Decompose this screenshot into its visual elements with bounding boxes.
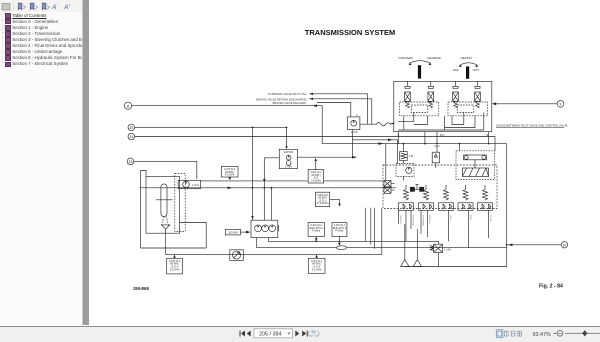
pilot spool unit 3	[453, 81, 459, 108]
svg-text:SM-865: SM-865	[133, 286, 150, 291]
wire pin to relief	[403, 144, 405, 152]
svg-text:10: 10	[563, 243, 567, 247]
pilot spool unit 2	[428, 81, 434, 108]
svg-text:SPEED P.: SPEED P.	[399, 215, 401, 225]
toolbar icons	[2, 3, 70, 12]
wire node 24 to control valve	[135, 137, 495, 151]
svg-text:9: 9	[560, 102, 562, 106]
svg-text:REVERSE: REVERSE	[411, 215, 413, 226]
zoom out control	[554, 332, 557, 334]
strainer funnel	[162, 217, 170, 255]
wire squiggle into pilot box	[390, 123, 394, 125]
spool spring 3	[439, 185, 454, 210]
svg-text:HIGH: HIGH	[449, 215, 451, 221]
spec box LB3	[315, 192, 340, 206]
converter outlet wire	[298, 156, 357, 159]
main delivery wire	[141, 187, 397, 189]
lube rail	[166, 254, 382, 256]
pump outlet rail 2	[257, 238, 507, 248]
wire to node 10	[507, 244, 562, 246]
lever FORWARD/REVERSE	[409, 61, 432, 79]
svg-text:VAPOR: VAPOR	[284, 150, 294, 154]
right rail vertical	[506, 144, 508, 267]
svg-text:B,D: B,D	[440, 133, 444, 137]
pilot pin wire A down	[397, 132, 399, 144]
left bookmarks sidebar	[0, 0, 82, 325]
return loop left vertical	[141, 171, 147, 249]
sidebar toolbar	[0, 0, 82, 12]
spool spring 1	[399, 185, 414, 210]
svg-text:REVERSE: REVERSE	[428, 56, 442, 60]
svg-text:Fig. 2 - 84: Fig. 2 - 84	[539, 284, 563, 290]
svg-text:FORWARD: FORWARD	[421, 215, 424, 227]
node 9 right	[557, 100, 564, 107]
pump feed vertical 2	[263, 158, 279, 220]
regulator hatched valve	[463, 168, 489, 177]
spec box LB2	[308, 158, 323, 183]
svg-text:TRANSMISSION SYSTEM: TRANSMISSION SYSTEM	[305, 28, 395, 37]
secondary delivery wire	[200, 180, 383, 182]
node 25	[128, 124, 135, 131]
drain stub wire 1	[364, 208, 366, 242]
lever speed MEDIUM	[459, 63, 478, 79]
drain stub wire 4	[381, 208, 383, 255]
pilot dashed chamber right	[448, 102, 488, 116]
port wire drops	[399, 210, 489, 247]
bookmark tree lines	[3, 14, 6, 63]
wire F valve outlet to gauge block	[353, 130, 398, 164]
filter level line	[156, 199, 173, 201]
lube triangle right	[413, 229, 421, 267]
svg-text:FORWARD: FORWARD	[398, 56, 412, 60]
svg-text:1-M: 1-M	[409, 154, 413, 158]
bottom collector line	[405, 266, 507, 268]
wire node 25 to converter	[135, 127, 287, 146]
spec box LB4	[308, 223, 324, 242]
wire from node 8 to lower bus	[132, 106, 507, 144]
svg-text:9-13 kPa: 9-13 kPa	[225, 174, 235, 177]
spec box LB7	[308, 255, 325, 274]
node 24	[128, 133, 135, 140]
wire bus to solenoid	[385, 144, 387, 181]
svg-text:FAST: FAST	[473, 68, 480, 72]
rate of rise cylinder	[464, 155, 487, 168]
restrictor oval	[337, 246, 347, 250]
pump feed vertical 3	[271, 188, 273, 220]
svg-text:MED: MED	[469, 215, 471, 220]
triple gear pump block	[251, 220, 279, 237]
wire node 9 to pilot box	[495, 103, 557, 105]
wire bus to subbox	[459, 144, 461, 151]
spool spring 4	[458, 185, 473, 210]
svg-text:23: 23	[129, 160, 133, 164]
pump outlet rail 1	[268, 238, 438, 242]
oil cooler	[230, 250, 244, 261]
svg-text:25: 25	[129, 126, 133, 130]
priority valve F	[348, 113, 360, 134]
annotation BRAKES VALVE RETURN	[256, 97, 372, 124]
wire node 23 to charge pump	[134, 162, 197, 179]
tank dashed chamber	[175, 174, 185, 232]
small pilot check valve	[432, 146, 439, 168]
node 23	[127, 158, 134, 165]
page number field	[254, 329, 293, 338]
page layout icons	[496, 330, 503, 338]
svg-text:1-094: 1-094	[285, 165, 292, 169]
pilot pin wire to bus	[424, 132, 426, 144]
svg-text:SPEED P.: SPEED P.	[428, 215, 430, 225]
svg-text:9-13 kPa: 9-13 kPa	[312, 268, 322, 271]
solenoid valve left pair	[384, 181, 395, 194]
bottom status bar	[0, 326, 600, 342]
pilot spool unit 1	[405, 81, 411, 108]
nav: first page	[240, 331, 251, 337]
svg-text:9-13 kPa: 9-13 kPa	[170, 268, 180, 271]
hose squiggle to pilot valve	[360, 122, 394, 126]
pump label 200 RW	[225, 229, 250, 235]
pilot pin wire B,D down	[436, 132, 438, 144]
spool spring 2	[419, 185, 434, 210]
solenoid coil pair	[410, 185, 424, 192]
svg-text:HIGH: HIGH	[453, 68, 460, 72]
annotation BRAKES VALVE DELIVERY	[273, 101, 351, 117]
arrow into converter	[285, 146, 288, 149]
svg-text:1-074: 1-074	[192, 183, 199, 187]
vertical scrollbar divider	[82, 0, 90, 325]
flow arrow on lower bus	[379, 142, 384, 145]
pump feed vertical 1	[251, 127, 254, 220]
history back/forward (pale)	[308, 330, 320, 337]
charge pump 1-074	[178, 180, 200, 188]
wire 24-line into subbox	[494, 150, 497, 152]
drain stub wire 2	[370, 208, 372, 245]
svg-text:P-Delta: P-Delta	[312, 230, 321, 233]
svg-text:200 RW: 200 RW	[228, 231, 238, 235]
svg-text:0-5.6kPa: 0-5.6kPa	[311, 179, 321, 182]
arrow into pilot box right	[492, 102, 496, 105]
control valve dashed enclosure	[383, 165, 497, 209]
svg-text:BRAKES VALVE DELIVERY: BRAKES VALVE DELIVERY	[273, 101, 307, 105]
svg-text:MEDIUM: MEDIUM	[461, 56, 473, 60]
svg-text:1-106: 1-106	[351, 130, 358, 134]
lube triangle left	[401, 224, 409, 267]
svg-text:24: 24	[129, 135, 133, 139]
pilot pin wire B down	[488, 132, 490, 144]
modulating dashed subbox	[456, 151, 495, 180]
svg-text:B: B	[487, 133, 489, 137]
svg-text:P-Delta: P-Delta	[335, 230, 344, 233]
svg-text:17.5-21kPa: 17.5-21kPa	[316, 202, 329, 205]
relief valve 1-M	[400, 152, 413, 161]
svg-text:HOSES BETWEEN PILOT VALVE AND: HOSES BETWEEN PILOT VALVE AND CONTROL VA…	[496, 123, 568, 127]
node 10	[561, 242, 567, 248]
drain stub wire 3	[374, 208, 376, 249]
node 8	[124, 102, 131, 109]
oil tank	[146, 177, 180, 234]
main return rail	[141, 247, 207, 249]
gauge block dashed	[396, 161, 414, 181]
arrow brakes valve delivery on node 8 wire	[313, 104, 318, 107]
pilot internal piping	[398, 113, 484, 131]
wire F valve drain to converter line	[352, 140, 354, 157]
converter pump box VAPOR	[279, 149, 297, 168]
suction filter	[161, 184, 167, 217]
solenoid 1-168	[430, 241, 451, 266]
svg-text:8: 8	[127, 103, 130, 108]
junction dots	[252, 127, 508, 246]
svg-text:BRAKES VALVE RETURN (DISCHARGE: BRAKES VALVE RETURN (DISCHARGE)	[256, 97, 306, 101]
flow arrow on delivery	[228, 187, 233, 190]
spec box LB1	[221, 166, 238, 180]
annotation TO BRAKES VALVE PILOT TAG	[268, 92, 368, 124]
pilot valve assembly box	[394, 81, 492, 131]
pilot dashed chamber left	[400, 102, 439, 116]
spec box LB6	[167, 255, 183, 274]
svg-text:SLOW: SLOW	[489, 215, 491, 222]
svg-text:TO BRAKES VALVE PILOT TAG: TO BRAKES VALVE PILOT TAG	[268, 92, 307, 96]
arrow on node 10 wire	[508, 244, 513, 247]
zoom slider	[565, 332, 600, 334]
tank outlet wire	[180, 223, 207, 249]
spool spring 5	[478, 185, 493, 210]
spec box LB5	[332, 223, 347, 246]
note hoses between pilot valve and control valve	[496, 123, 568, 127]
pilot spool unit 4	[475, 81, 481, 108]
